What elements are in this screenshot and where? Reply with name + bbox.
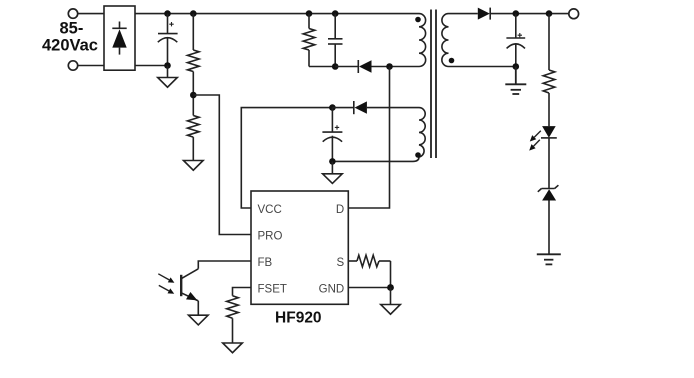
aux phase dot bbox=[415, 152, 421, 158]
svg-text:420Vac: 420Vac bbox=[42, 37, 98, 55]
IC U1 HF920 box bbox=[251, 191, 348, 304]
svg-text:PRO: PRO bbox=[258, 231, 283, 243]
node divider mid bbox=[190, 92, 197, 99]
wire sense to gnd node bbox=[390, 261, 392, 288]
wire VCC trace bbox=[241, 108, 332, 208]
ground under opto bbox=[189, 315, 209, 325]
LED D3 bbox=[541, 126, 557, 188]
ground under divider bbox=[184, 161, 204, 171]
svg-text:HF920: HF920 bbox=[275, 310, 322, 327]
transformer T1 primary winding bbox=[419, 14, 426, 67]
earth ground under output cap bbox=[505, 67, 526, 95]
resistor R6 sense bbox=[357, 255, 391, 267]
optocoupler Q1 phototransistor bbox=[181, 269, 198, 315]
capacitor C2 snubber bbox=[328, 14, 343, 67]
svg-text:FB: FB bbox=[258, 257, 273, 269]
wire drain vertical to D pin bbox=[348, 67, 389, 209]
resistor R5 fset bbox=[227, 296, 239, 343]
ground under aux cap bbox=[323, 161, 343, 183]
primary phase dot bbox=[415, 17, 421, 23]
node output cap top bbox=[513, 10, 520, 17]
transformer core bbox=[431, 10, 436, 159]
bridge rectifier BR1 box bbox=[104, 6, 135, 70]
resistor R1 divider upper bbox=[188, 14, 200, 116]
svg-text:GND: GND bbox=[319, 284, 345, 296]
resistor R2 divider lower bbox=[188, 116, 200, 161]
node snubber C top bbox=[332, 10, 339, 17]
diode D2 output rectifier bbox=[478, 8, 569, 20]
wire bottom bridge to bulk cap bbox=[135, 65, 168, 67]
wire top rail bridge to primary bbox=[135, 13, 419, 15]
output terminal bbox=[569, 9, 579, 19]
node gnd junction bbox=[387, 284, 394, 291]
transformer T1 secondary winding bbox=[442, 14, 449, 67]
ground under bulk cap bbox=[158, 66, 178, 88]
resistor R3 snubber bbox=[303, 14, 335, 67]
node aux return bbox=[329, 158, 336, 165]
secondary phase dot bbox=[449, 58, 455, 64]
wire secondary bottom bbox=[449, 66, 516, 68]
node aux cap top bbox=[329, 104, 336, 111]
wire FB trace bbox=[198, 261, 251, 269]
zener diode Z1 bbox=[538, 185, 559, 254]
capacitor C4 output electrolytic bbox=[506, 14, 525, 67]
wire input top to bridge bbox=[78, 13, 104, 15]
earth ground right branch bbox=[537, 254, 561, 264]
node output branch bbox=[546, 10, 553, 17]
node snubber bottom bbox=[332, 63, 339, 70]
ground under gnd pin bbox=[381, 288, 401, 315]
svg-text:S: S bbox=[337, 257, 345, 269]
capacitor C3 vcc electrolytic bbox=[322, 108, 342, 162]
diode D4 aux bbox=[332, 101, 419, 114]
wire FSET trace bbox=[233, 288, 252, 296]
wire input bottom to bridge bbox=[78, 65, 104, 67]
wire PRO trace bbox=[193, 95, 251, 235]
LED D3 emission arrows bbox=[529, 131, 541, 151]
resistor R4 load bbox=[543, 14, 555, 127]
diode D1 clamp bbox=[358, 60, 419, 73]
capacitor C1 bulk electrolytic bbox=[158, 14, 178, 66]
svg-text:VCC: VCC bbox=[258, 204, 282, 216]
node bulk cap bottom bbox=[164, 62, 171, 69]
input terminal top bbox=[68, 9, 77, 18]
svg-text:85-: 85- bbox=[59, 19, 83, 37]
optocoupler light arrows bbox=[158, 274, 174, 294]
wire GND trace bbox=[348, 287, 390, 289]
wire snubber to diode bbox=[335, 66, 358, 68]
svg-text:D: D bbox=[336, 204, 344, 216]
label 85-420Vac bbox=[42, 19, 98, 54]
wire S trace bbox=[348, 260, 357, 262]
svg-text:FSET: FSET bbox=[258, 284, 287, 296]
transformer T1 aux winding bbox=[332, 108, 425, 162]
node divider top bbox=[190, 10, 197, 17]
ground under fset resistor bbox=[223, 343, 243, 353]
node snubber R top bbox=[306, 10, 313, 17]
bridge rectifier BR1 diode bbox=[112, 22, 126, 55]
node bulk cap top bbox=[164, 10, 171, 17]
wire secondary top to output diode bbox=[449, 13, 478, 15]
node output cap bottom bbox=[513, 63, 520, 70]
node drain bbox=[386, 63, 393, 70]
input terminal bottom bbox=[68, 61, 77, 70]
